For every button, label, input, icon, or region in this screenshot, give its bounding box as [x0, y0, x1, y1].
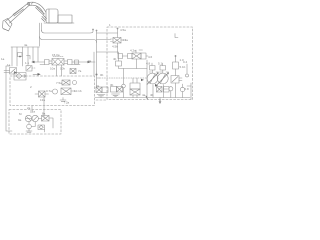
valve 4.2 cluster — [118, 43, 153, 69]
hose line upper — [42, 30, 94, 33]
filter box — [14, 73, 26, 81]
excavator boom — [28, 2, 46, 14]
riser link to pilot — [97, 33, 118, 40]
svg-text:1: 1 — [109, 23, 111, 27]
hose down from boom valve — [40, 23, 42, 46]
svg-text:10.1b: 10.1b — [74, 89, 82, 93]
svg-text:4a: 4a — [24, 43, 28, 47]
svg-text:0.7a: 0.7a — [46, 89, 52, 93]
svg-text:5.1: 5.1 — [158, 62, 163, 66]
svg-text:0a: 0a — [88, 59, 92, 63]
excavator bucket — [3, 19, 13, 32]
left valve 1a — [4, 63, 17, 74]
svg-text:9a: 9a — [18, 118, 22, 122]
svg-text:4.5a: 4.5a — [120, 28, 126, 32]
svg-text:4.2a: 4.2a — [130, 49, 136, 53]
svg-text:4.6: 4.6 — [148, 55, 153, 59]
node 0b — [96, 72, 104, 88]
motor circle — [19, 112, 32, 122]
mark L — [175, 34, 178, 38]
manifold header — [11, 43, 40, 47]
svg-text:1a: 1a — [7, 63, 11, 67]
main control valve 15.0a — [45, 53, 73, 76]
gauge circle — [46, 89, 58, 94]
junction box main line — [75, 60, 79, 64]
svg-text:1a: 1a — [1, 57, 5, 61]
svg-text:0.8: 0.8 — [185, 87, 190, 91]
aux pump — [26, 124, 32, 132]
pilot dashed line — [100, 77, 148, 79]
pilot pump circle — [169, 87, 173, 98]
pump outlets — [153, 84, 169, 98]
svg-text:M: M — [19, 112, 22, 116]
control block 2 dashed box — [10, 76, 95, 106]
left valve 1b — [25, 61, 36, 71]
pilot node pole — [117, 28, 127, 38]
main pump 2 — [157, 70, 168, 85]
pump unit filter — [38, 125, 45, 130]
dark ticks bottom — [146, 96, 160, 103]
pilot valve 4.3a — [111, 38, 129, 49]
svg-text:4a: 4a — [142, 93, 146, 97]
svg-text:13a: 13a — [40, 98, 45, 102]
box2 inlet arrow — [33, 73, 41, 76]
bottom marks box2 — [27, 91, 70, 117]
valve 7a — [70, 69, 82, 74]
svg-text:4.8: 4.8 — [146, 62, 151, 66]
manifold drops — [1, 47, 38, 66]
aux comp right — [180, 60, 189, 98]
main pump 1 — [147, 70, 158, 85]
bottom return line — [88, 59, 190, 104]
bottom strip valve B — [111, 87, 123, 97]
svg-text:10b: 10b — [60, 67, 65, 71]
bottom labels strip — [96, 83, 154, 97]
svg-text:1.1: 1.1 — [25, 61, 30, 65]
pump inlet valves — [146, 62, 169, 73]
excavator body — [44, 15, 74, 23]
line valve to riser — [31, 52, 95, 76]
main riser node — [92, 29, 97, 72]
svg-text:15.0a: 15.0a — [52, 53, 60, 57]
check circle — [122, 84, 126, 97]
svg-text:0.4: 0.4 — [183, 60, 188, 64]
svg-text:7.5a: 7.5a — [56, 81, 62, 85]
pump unit valve — [42, 112, 50, 122]
excavator boom cylinder — [27, 3, 46, 22]
excavator cab — [46, 9, 58, 23]
svg-text:4.3a: 4.3a — [122, 38, 128, 42]
line to 4.2 — [97, 51, 119, 53]
excavator bucket cylinder — [13, 8, 24, 17]
svg-text:4b: 4b — [113, 57, 117, 61]
svg-text:3b: 3b — [110, 83, 114, 87]
svg-text:4b: 4b — [150, 93, 154, 97]
hose line lower — [40, 37, 97, 43]
valve 4.10 — [61, 88, 82, 95]
small valve 118 — [113, 52, 147, 97]
svg-text:0b: 0b — [100, 73, 104, 77]
svg-text:10a: 10a — [50, 67, 55, 71]
pump circle — [18, 115, 38, 122]
valve 7.5a — [56, 80, 77, 85]
svg-text:12a: 12a — [30, 110, 35, 114]
relief valve column — [171, 55, 186, 97]
excavator stick arm — [7, 4, 30, 24]
svg-text:5.1b: 5.1b — [180, 65, 186, 69]
svg-text:8a: 8a — [42, 112, 46, 116]
right edge line — [187, 83, 191, 100]
bottom valve C — [130, 78, 140, 98]
svg-text:7a: 7a — [78, 69, 82, 73]
big right dashed enclosure 1 — [107, 23, 193, 100]
power unit dashed box — [9, 110, 61, 135]
svg-text:2: 2 — [30, 85, 32, 89]
suction line — [29, 110, 53, 133]
svg-text:3a: 3a — [96, 84, 100, 88]
svg-text:T2a: T2a — [64, 101, 70, 105]
left frame line — [6, 66, 12, 131]
bottom strip valve A — [96, 87, 108, 97]
